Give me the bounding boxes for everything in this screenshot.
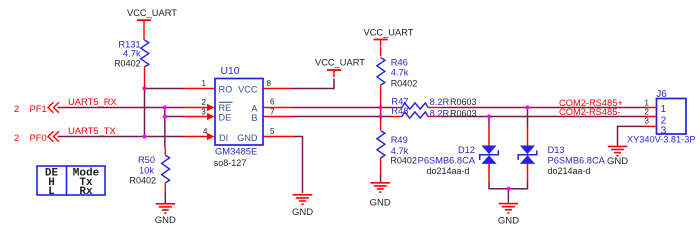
svg-text:U10: U10 — [221, 66, 240, 77]
svg-text:UART5_RX: UART5_RX — [68, 96, 118, 107]
diode D13 P6SMB6.8CA (TVS on A) — [518, 127, 605, 183]
U10 pin name DI — [219, 133, 228, 143]
svg-text:GND: GND — [237, 133, 258, 143]
svg-text:R50: R50 — [138, 155, 155, 165]
svg-text:do214aa-d: do214aa-d — [548, 166, 591, 176]
svg-text:D12: D12 — [458, 145, 475, 155]
svg-text:GND: GND — [607, 156, 628, 167]
resistor R131 4.7k R0402 (pullup) — [114, 27, 149, 89]
wire: B net pin7 to R48 — [293, 116, 392, 118]
wire: vertical from RO node down to UART5_TX line — [144, 89, 146, 137]
svg-text:R46: R46 — [391, 57, 408, 67]
U10 pin name B — [251, 113, 257, 123]
svg-text:D13: D13 — [548, 145, 565, 155]
ground at J6 pin3 — [607, 146, 628, 167]
svg-text:4: 4 — [203, 127, 208, 136]
resistor R46 4.7k R0402 (bias pullup on A) — [377, 47, 417, 108]
node: junction DE/R50 — [163, 114, 167, 118]
J6 pin 2 — [645, 107, 667, 126]
svg-text:COM2-RS485-: COM2-RS485- — [559, 107, 620, 117]
ground below TVS diodes — [498, 204, 519, 227]
svg-text:J6: J6 — [656, 89, 667, 100]
net label UART5_RX — [68, 96, 118, 107]
svg-text:2: 2 — [14, 103, 19, 114]
wire: D12 vertical to B net — [488, 117, 490, 127]
U10 pin name GND — [237, 133, 258, 143]
svg-text:3: 3 — [645, 116, 650, 125]
U10 pin name A — [251, 104, 258, 114]
wire: UART5_RX net from port PF1 to pin2 — [58, 107, 185, 109]
wire: TVS bottoms to ground tee — [489, 182, 528, 203]
svg-text:do214aa-d: do214aa-d — [426, 166, 469, 176]
svg-text:R0402: R0402 — [390, 155, 417, 165]
ground below R49 — [370, 183, 391, 209]
svg-text:3: 3 — [661, 125, 667, 137]
net label COM2-RS485- — [559, 107, 620, 117]
svg-text:1: 1 — [661, 103, 667, 115]
svg-text:VCC_UART: VCC_UART — [315, 57, 365, 67]
node: junction D12/B — [487, 114, 491, 118]
svg-text:so8-127: so8-127 — [214, 158, 247, 168]
wire: D13 vertical to A net — [527, 108, 529, 127]
op-amp/transceiver U10 GM3485E body — [214, 66, 263, 168]
wire: A net R47 to J6 pin1 — [441, 107, 646, 109]
svg-text:8.2R: 8.2R — [430, 97, 450, 107]
U10 pin 3 (DE) stub with arrow — [183, 107, 215, 120]
svg-text:R0402: R0402 — [391, 79, 418, 89]
svg-text:Rx: Rx — [79, 186, 93, 198]
wire: DE pin3 horizontal — [165, 116, 183, 118]
node: junction vertical/UART5_TX — [142, 134, 146, 138]
node: junction D13/A — [525, 105, 529, 109]
U10 pin 5 (GND) stub — [264, 127, 295, 136]
svg-text:A: A — [251, 104, 258, 114]
wire: pin8 VCC to VCC_UART symbol — [292, 79, 335, 89]
svg-text:GM3485E: GM3485E — [215, 146, 257, 157]
wire: B net R48 to J6 pin2 — [441, 116, 646, 118]
U10 pin 6 (A) stub — [264, 98, 294, 108]
svg-text:8: 8 — [267, 79, 272, 88]
svg-text:UART5_TX: UART5_TX — [68, 125, 117, 136]
svg-text:DI: DI — [219, 133, 228, 143]
svg-text:1: 1 — [202, 79, 207, 88]
svg-text:2: 2 — [645, 107, 650, 116]
svg-text:PF1: PF1 — [30, 103, 47, 114]
ground below R50 — [155, 204, 176, 226]
U10 pin 4 (DI) stub with arrow — [185, 127, 215, 140]
svg-text:R48: R48 — [391, 106, 408, 116]
U10 pin name RO — [219, 85, 233, 95]
svg-text:GND: GND — [370, 198, 391, 209]
svg-text:R0603: R0603 — [450, 97, 477, 107]
svg-text:RE: RE — [219, 103, 232, 113]
U10 pin 2 (RE) stub with arrow — [184, 98, 215, 111]
svg-text:R0402: R0402 — [129, 175, 156, 185]
svg-text:1: 1 — [645, 98, 650, 107]
net label UART5_TX — [68, 125, 117, 136]
power VCC_UART (above R46) — [364, 27, 414, 46]
svg-text:DE: DE — [219, 113, 232, 123]
svg-text:10k: 10k — [139, 166, 154, 176]
port PF0 (sheet 2) — [14, 131, 59, 143]
svg-text:3: 3 — [201, 107, 206, 116]
power VCC_UART (at U10 pin8) — [315, 57, 365, 77]
port PF1 (sheet 2) — [14, 102, 59, 114]
svg-text:8.2R: 8.2R — [430, 108, 450, 118]
svg-text:4.7k: 4.7k — [391, 68, 409, 78]
U10 pin name RE (active low, overline) — [219, 102, 233, 113]
resistor R48 8.2R R0603 (series B) — [391, 106, 476, 118]
node: junction TVS ground tee — [506, 187, 510, 191]
wire: bias vertical between A and B (R46/R49) — [380, 108, 382, 117]
ground below U10 pin5 — [292, 195, 313, 218]
node: junction UART5_RX/RE — [163, 105, 167, 109]
svg-text:P6SMB6.8CA: P6SMB6.8CA — [418, 156, 476, 166]
svg-text:R49: R49 — [391, 135, 408, 145]
svg-text:RO: RO — [219, 85, 233, 95]
svg-text:5: 5 — [270, 127, 275, 136]
resistor R50 10k R0402 (pulldown on RE/DE) — [129, 147, 169, 192]
net label COM2-RS485+ — [559, 98, 623, 108]
svg-text:R0603: R0603 — [450, 108, 477, 118]
node: junction R46/A — [379, 105, 383, 109]
svg-text:6: 6 — [270, 98, 275, 107]
J6 pin 1 — [645, 98, 667, 115]
node: junction R131/RO — [142, 86, 146, 90]
svg-text:VCC_UART: VCC_UART — [127, 8, 177, 18]
wire: pin5 GND route — [294, 137, 303, 194]
svg-text:GND: GND — [498, 216, 519, 227]
U10 pin 7 (B) stub — [264, 107, 294, 116]
svg-text:VCC_UART: VCC_UART — [364, 27, 414, 37]
node: junction R49/B — [379, 114, 383, 118]
diode D12 P6SMB6.8CA (TVS on B) — [418, 127, 499, 183]
power VCC_UART (above R131) — [127, 8, 177, 27]
svg-text:GND: GND — [155, 215, 176, 226]
wire: UART5_TX net from port PF0 to pin4 — [58, 136, 186, 138]
svg-text:R0402: R0402 — [114, 59, 141, 69]
resistor R47 8.2R R0603 (series A) — [391, 96, 476, 109]
wire: A net pin6 to R47 — [293, 107, 392, 109]
svg-text:2: 2 — [14, 132, 19, 143]
svg-text:PF0: PF0 — [30, 132, 47, 143]
svg-text:7: 7 — [270, 107, 275, 116]
svg-text:P6SMB6.8CA: P6SMB6.8CA — [548, 156, 606, 166]
U10 pin name VCC — [238, 85, 258, 95]
svg-text:GND: GND — [292, 207, 313, 218]
wire: J6 pin3 to GND — [618, 126, 646, 145]
svg-text:VCC: VCC — [238, 85, 258, 95]
svg-text:B: B — [251, 113, 257, 123]
svg-text:4.7k: 4.7k — [123, 49, 141, 59]
U10 pin 8 (VCC) stub — [264, 79, 292, 89]
connector J6 XY340V-3.81-3P — [627, 89, 695, 145]
wire: RO pullup node to pin1 — [145, 88, 185, 90]
svg-text:R47: R47 — [391, 96, 408, 106]
svg-text:2: 2 — [202, 98, 207, 107]
wire: vertical RE/DE tie down to R50 — [164, 108, 166, 148]
J6 pin 3 — [645, 116, 667, 136]
U10 pin 1 (RO) stub — [184, 79, 215, 89]
resistor R49 4.7k R0402 (bias pulldown on B) — [377, 117, 417, 175]
U10 pin name DE — [219, 113, 232, 123]
svg-text:L: L — [48, 186, 55, 198]
wire: R49 to GND stub — [380, 174, 382, 182]
wire: R50 to GND stub — [164, 192, 166, 204]
table: DE mode legend — [37, 166, 105, 198]
